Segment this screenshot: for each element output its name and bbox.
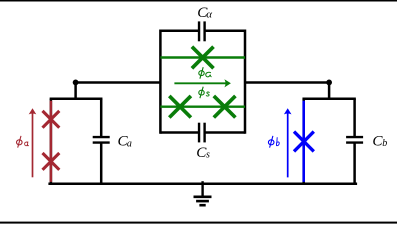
wire left coupling (76, 81, 161, 84)
node left junction dot (73, 80, 79, 86)
flux label phi_alpha (199, 67, 204, 79)
flux arrow phi_alpha/phi_s (green) (174, 79, 231, 87)
Josephson junction (dark red, upper) (43, 111, 60, 128)
capacitor C_s label (196, 144, 210, 161)
capacitor C_a plates (93, 137, 110, 143)
wire alpha-loop branch (green) (160, 56, 245, 58)
wire qubit-b capacitor branch (353, 99, 356, 184)
wire qubit-a junction branch (dark red) (50, 101, 53, 182)
wire qubit-b junction branch (blue) (302, 101, 305, 182)
flux arrow phi_a (dark red) (29, 108, 37, 177)
svg-text:a: a (127, 139, 132, 150)
wire ground rail (50, 183, 356, 186)
Josephson junction (dark red, lower) (43, 153, 60, 170)
capacitor C_b plates (346, 137, 363, 143)
capacitor C_s plates (199, 123, 205, 143)
capacitor C_alpha plates (199, 21, 205, 41)
Josephson junction (blue) (294, 132, 314, 152)
wire coupler box right edge (244, 30, 247, 134)
svg-text:s: s (206, 150, 210, 161)
wire qubit-b loop top edge (304, 98, 355, 101)
svg-text:α: α (206, 9, 212, 21)
wire qubit-a capacitor branch (100, 99, 103, 184)
wire right node stem (328, 82, 331, 98)
Josephson junction (green, s branch left) (169, 96, 191, 118)
wire qubit-b junction branch (black ends) (302, 99, 305, 184)
wire coupler box bottom edge (160, 131, 245, 134)
Josephson junction (green, alpha branch) (192, 47, 214, 69)
wire s-loop branch (green) (160, 105, 245, 107)
wire left node stem (74, 82, 77, 98)
svg-text:b: b (382, 138, 387, 149)
wire qubit-a junction branch (black ends) (50, 99, 53, 184)
capacitor C_b label (372, 132, 387, 149)
capacitor C_a label (118, 132, 132, 149)
frame bottom border line (0, 222, 397, 224)
flux arrow phi_b (blue) (284, 108, 292, 177)
frame top border line (0, 0, 397, 2)
flux label phi_a (17, 136, 23, 148)
wire coupler box top edge (160, 30, 245, 33)
flux label phi_b (268, 136, 274, 148)
node right junction dot (326, 80, 332, 86)
capacitor C_alpha label (197, 4, 212, 21)
wire right coupling (245, 81, 329, 84)
wire qubit-a loop top edge (51, 98, 101, 101)
ground (194, 181, 212, 205)
wire coupler box left edge (159, 30, 162, 134)
flux label phi_s (199, 87, 204, 99)
Josephson junction (green, s branch right) (214, 96, 236, 118)
